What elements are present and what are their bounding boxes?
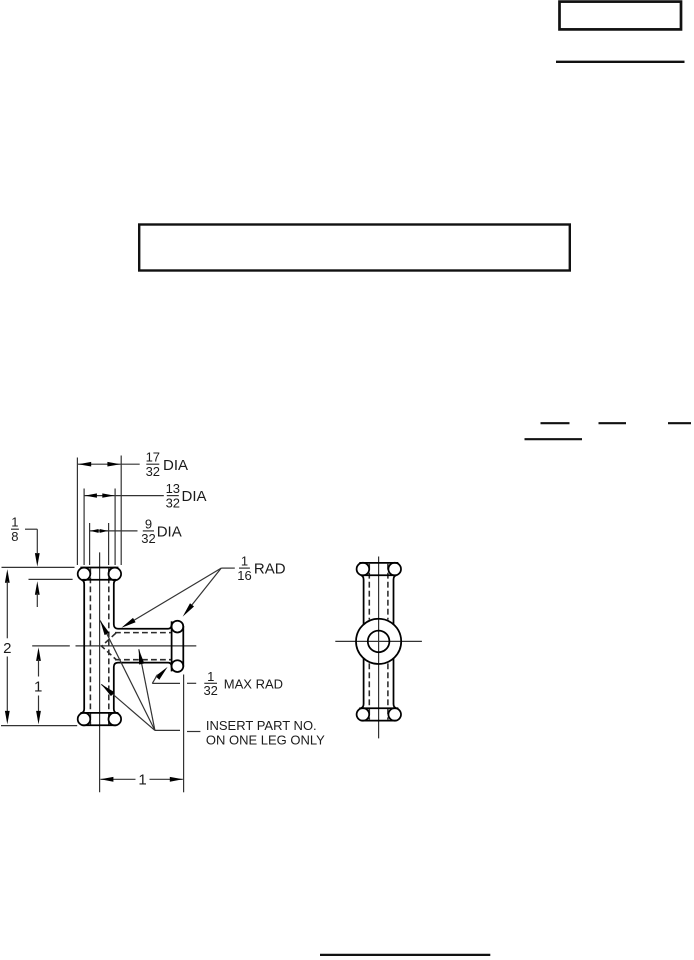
- redacted underline: [525, 438, 583, 440]
- svg-text:2: 2: [3, 640, 11, 657]
- 1 dimension (bottom): [100, 675, 183, 793]
- hidden bore right: [108, 569, 110, 725]
- svg-text:17: 17: [146, 450, 160, 465]
- svg-text:RAD: RAD: [254, 561, 286, 578]
- bar right edge upper (to leg fillet): [114, 580, 118, 629]
- hidden leg bore top: [115, 632, 171, 634]
- 13/32 DIA: [84, 481, 206, 565]
- svg-text:DIA: DIA: [157, 523, 182, 540]
- svg-text:1: 1: [34, 679, 42, 696]
- hidden bore lines: [368, 564, 370, 620]
- body left edges: [361, 575, 364, 624]
- svg-text:1: 1: [138, 771, 146, 788]
- svg-text:1: 1: [11, 515, 18, 530]
- bottom cap: end bulge circles + face lines: [357, 708, 370, 721]
- boss outer circle: [356, 619, 401, 664]
- 1 dimension (left): [1, 647, 77, 725]
- bottom cap: end bulge circles + face lines: [78, 713, 91, 726]
- top-right horizontal rule: [556, 61, 685, 63]
- bar left edge with flares: [82, 580, 84, 713]
- svg-text:32: 32: [203, 683, 217, 698]
- svg-text:16: 16: [237, 568, 251, 583]
- svg-text:INSERT PART NO.: INSERT PART NO.: [206, 718, 317, 733]
- 1/32 MAX RAD note: [152, 667, 283, 698]
- svg-text:1: 1: [207, 669, 214, 684]
- bore inner circle: [368, 631, 390, 653]
- INSERT PART NO. note: [100, 621, 325, 748]
- bottom centered rule: [320, 954, 490, 956]
- hidden bore left: [89, 569, 91, 725]
- leg cap: end bulge circles + face lines: [172, 621, 184, 633]
- 1/16 RAD note: [121, 554, 285, 628]
- svg-text:9: 9: [145, 516, 152, 531]
- svg-text:32: 32: [166, 496, 180, 511]
- 2 dimension: [3, 569, 11, 724]
- svg-text:32: 32: [146, 464, 160, 479]
- svg-text:32: 32: [141, 531, 155, 546]
- svg-text:DIA: DIA: [182, 488, 207, 505]
- svg-text:ON ONE LEG ONLY: ON ONE LEG ONLY: [206, 733, 325, 748]
- svg-text:8: 8: [11, 529, 18, 544]
- svg-text:13: 13: [166, 481, 180, 496]
- svg-text:MAX RAD: MAX RAD: [224, 676, 283, 691]
- 9/32 DIA: [90, 516, 182, 565]
- 1/8 dimension: [2, 515, 75, 607]
- centerline vertical: [99, 552, 101, 792]
- centerline horizontal: through part: [76, 645, 197, 647]
- top cap: end bulge circles + face lines: [78, 568, 91, 581]
- leg top edge: [118, 625, 172, 629]
- bar right edge lower (from leg fillet): [114, 663, 118, 713]
- hidden drill point V: [102, 633, 116, 660]
- svg-text:1: 1: [241, 554, 248, 569]
- redacted text dashes row: [541, 422, 570, 424]
- middle empty title box: [139, 225, 570, 271]
- centerline horizontal: ext segment: [32, 645, 70, 647]
- svg-text:DIA: DIA: [163, 457, 188, 474]
- top-right empty title box: [560, 2, 682, 30]
- centerlines: [378, 557, 380, 739]
- top cap: end bulge circles + face lines: [357, 563, 370, 576]
- 17/32 DIA: [77, 450, 188, 565]
- hidden leg bore bottom: [115, 659, 171, 661]
- body right edges: [394, 575, 397, 624]
- leg bottom edge: [118, 663, 172, 667]
